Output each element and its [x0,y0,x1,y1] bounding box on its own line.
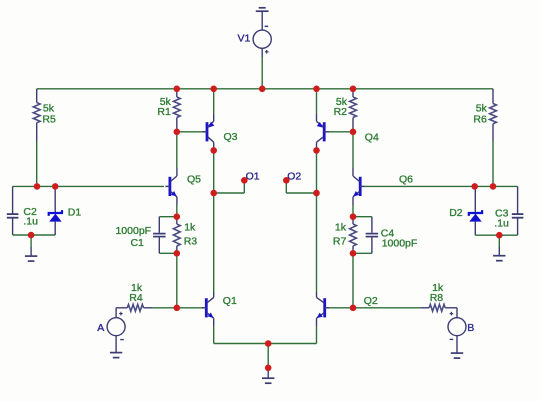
svg-text:.1u: .1u [23,216,38,228]
svg-text:Q1: Q1 [223,295,237,307]
svg-text:R3: R3 [184,236,198,248]
svg-text:.1u: .1u [494,217,509,229]
svg-text:B: B [467,322,474,334]
svg-text:O1: O1 [246,170,260,182]
svg-text:D2: D2 [449,207,463,219]
svg-text:Q4: Q4 [365,131,379,143]
svg-text:1000pF: 1000pF [382,237,418,249]
svg-text:R1: R1 [157,106,171,118]
svg-text:Q5: Q5 [187,173,201,185]
svg-text:R2: R2 [334,106,348,118]
svg-text:V1: V1 [238,33,251,45]
svg-text:1k: 1k [335,222,347,234]
svg-text:R6: R6 [473,114,487,126]
svg-text:Q3: Q3 [224,131,238,143]
svg-text:C1: C1 [130,237,144,249]
svg-text:A: A [97,322,104,334]
svg-text:D1: D1 [68,207,82,219]
svg-text:R7: R7 [333,236,347,248]
svg-text:Q6: Q6 [399,173,413,185]
svg-text:Q2: Q2 [364,295,378,307]
svg-text:R5: R5 [42,113,56,125]
svg-text:R4: R4 [129,292,143,304]
svg-text:1000pF: 1000pF [115,225,151,237]
svg-text:R8: R8 [430,292,444,304]
svg-text:1k: 1k [184,222,196,234]
